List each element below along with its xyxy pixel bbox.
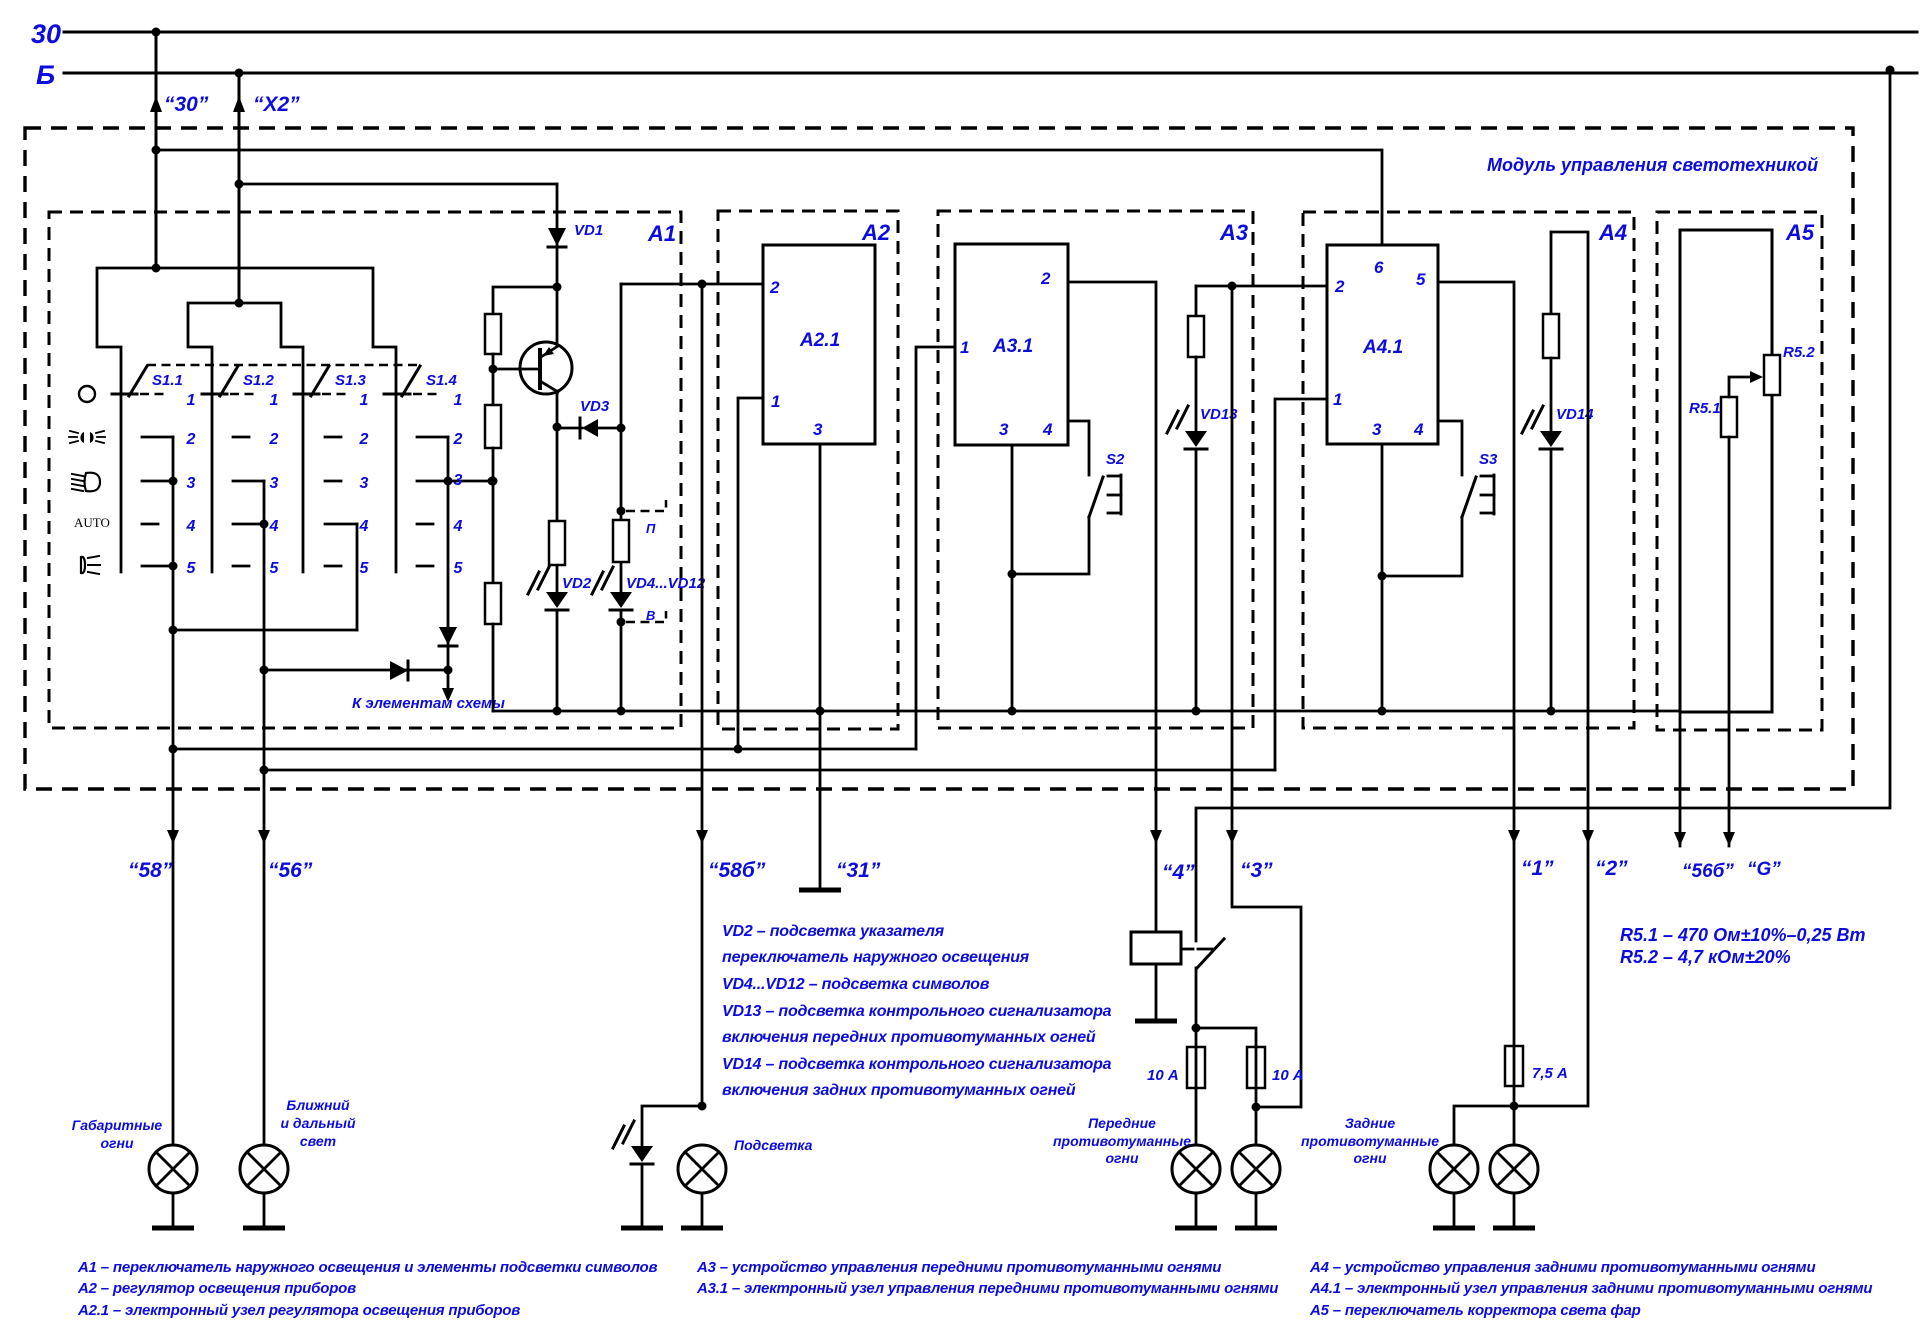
svg-text:А3.1 – электронный узел управл: А3.1 – электронный узел управления перед… xyxy=(696,1280,1278,1297)
LED VD14 xyxy=(1522,358,1562,711)
svg-text:A3.1: A3.1 xyxy=(992,336,1033,357)
transistor VT xyxy=(520,287,572,432)
svg-text:Модуль управления светотехнико: Модуль управления светотехникой xyxy=(1487,155,1818,175)
block A3.1 xyxy=(955,244,1068,445)
wire feed to A4.1 pin6 xyxy=(156,150,1382,245)
svg-text:включения задних противотуманн: включения задних противотуманных огней xyxy=(722,1082,1076,1099)
svg-text:VD14 – подсветка контрольного: VD14 – подсветка контрольного сигнализат… xyxy=(722,1056,1112,1073)
node junction 30/drop xyxy=(152,28,161,37)
svg-text:6: 6 xyxy=(1374,258,1384,277)
switch S1.4 xyxy=(384,366,463,572)
wire divider to bus xyxy=(492,624,495,711)
switch S1.2 xyxy=(202,366,279,572)
svg-text:П: П xyxy=(646,521,656,536)
wire output 58б xyxy=(696,284,708,1111)
svg-text:R5.2: R5.2 xyxy=(1783,344,1815,361)
resistor divider mid xyxy=(485,405,501,448)
svg-text:S1.4: S1.4 xyxy=(426,372,458,389)
switch S1.1 xyxy=(112,366,196,572)
svg-text:R5.1: R5.1 xyxy=(1689,400,1721,417)
lamp rear fog 2 xyxy=(1490,1145,1538,1228)
svg-text:“1”: “1” xyxy=(1521,857,1554,880)
wire Б right feed xyxy=(1196,66,1895,942)
wire VD13 chain feed xyxy=(1195,286,1198,316)
svg-text:4: 4 xyxy=(453,518,463,535)
wire A2.1 pin1 xyxy=(738,398,763,749)
wire A2.1 pin2 xyxy=(621,280,763,289)
svg-text:“30”: “30” xyxy=(164,93,209,116)
svg-text:Б: Б xyxy=(36,60,55,90)
node В bracket xyxy=(626,608,666,623)
svg-text:огни: огни xyxy=(1353,1150,1386,1166)
svg-text:2: 2 xyxy=(1040,269,1051,288)
svg-text:10 А: 10 А xyxy=(1147,1067,1179,1084)
node caption габаритные огни xyxy=(72,1117,163,1151)
icon fog light xyxy=(81,556,100,574)
svg-text:5: 5 xyxy=(360,560,370,577)
lamp front fog 2 xyxy=(1232,1145,1280,1228)
fuse F1 10A xyxy=(1147,1028,1205,1145)
svg-text:A1: A1 xyxy=(647,221,676,246)
switch S1.4 contacts xyxy=(417,431,497,577)
svg-text:10 А: 10 А xyxy=(1272,1067,1304,1084)
svg-text:1: 1 xyxy=(454,392,463,409)
svg-text:VD2 – подсветка указателя: VD2 – подсветка указателя xyxy=(722,923,945,940)
svg-text:3: 3 xyxy=(813,420,823,439)
wire branch y670 with diode xyxy=(264,661,453,680)
node VD annotation block xyxy=(722,923,1112,1099)
svg-text:3: 3 xyxy=(270,475,279,492)
wire staircase from Х2 xyxy=(188,303,303,394)
svg-text:4: 4 xyxy=(269,518,279,535)
node legend column 2 xyxy=(696,1259,1278,1297)
node П bracket xyxy=(626,500,666,536)
resistor R5.1 xyxy=(1689,397,1737,437)
wire divider mid xyxy=(489,354,540,405)
svg-text:A3: A3 xyxy=(1219,220,1248,245)
wire S1.1 output to 58 xyxy=(167,437,179,1145)
svg-text:“3”: “3” xyxy=(1240,859,1273,882)
svg-text:“2”: “2” xyxy=(1595,857,1628,880)
wire rear lamps link xyxy=(1454,1046,1519,1145)
icon off position xyxy=(79,386,95,402)
svg-text:VD13 – подсветка контрольного: VD13 – подсветка контрольного сигнализат… xyxy=(722,1003,1112,1020)
wire A3.1 pin4 to S2 xyxy=(1068,421,1089,475)
svg-text:3: 3 xyxy=(1372,420,1382,439)
wire A3.1 pin3 xyxy=(1008,445,1017,711)
svg-text:“4”: “4” xyxy=(1162,861,1195,884)
block A2.1 xyxy=(763,245,875,444)
lamp Ближний и дальний свет xyxy=(240,1145,288,1228)
svg-text:А3 – устройство управления пер: А3 – устройство управления передними про… xyxy=(696,1259,1221,1276)
switch S1.2 contacts xyxy=(233,431,280,577)
svg-text:VD4...VD12 – подсветка символо: VD4...VD12 – подсветка символов xyxy=(722,976,990,993)
lamp rear fog 1 xyxy=(1430,1145,1478,1228)
switch S1.3 contacts xyxy=(325,431,370,577)
wire output G xyxy=(1723,437,1735,846)
svg-text:4: 4 xyxy=(1042,420,1053,439)
svg-text:“Х2”: “Х2” xyxy=(253,93,300,116)
svg-text:2: 2 xyxy=(186,431,196,448)
svg-text:VD1: VD1 xyxy=(574,222,603,239)
svg-text:Ближний: Ближний xyxy=(286,1097,350,1113)
resistor VD2 chain xyxy=(549,521,565,565)
svg-text:S1.2: S1.2 xyxy=(243,372,275,389)
svg-text:противотуманные: противотуманные xyxy=(1053,1133,1191,1149)
svg-text:VD3: VD3 xyxy=(580,398,610,415)
wire VD1 node to divider xyxy=(493,287,557,314)
wire R5.1 wiper arrow xyxy=(1729,371,1763,397)
wire S2 branch xyxy=(1012,517,1089,574)
svg-text:Задние: Задние xyxy=(1345,1115,1395,1131)
wire VD14 chain feed xyxy=(1550,232,1553,314)
svg-text:3: 3 xyxy=(360,475,369,492)
svg-text:5: 5 xyxy=(1416,270,1426,289)
svg-text:“58”: “58” xyxy=(128,859,173,882)
wire A3.1 pin1 xyxy=(916,347,955,749)
wire A4.1 pin5 to output 1 xyxy=(1438,282,1520,1046)
switch coupling dashed line xyxy=(147,364,422,367)
wire bus 58 sense y749 xyxy=(173,745,916,754)
svg-text:A4: A4 xyxy=(1598,220,1627,245)
svg-text:VD4...VD12: VD4...VD12 xyxy=(626,575,706,592)
svg-text:4: 4 xyxy=(1413,420,1424,439)
wire bus 56 sense y770 xyxy=(264,769,1275,772)
wire bus 30 xyxy=(64,31,1917,34)
block A5 body xyxy=(1680,230,1772,712)
node R5 values xyxy=(1620,925,1866,967)
button S3 xyxy=(1462,451,1498,517)
resistor divider top xyxy=(485,314,501,354)
LED VD13 xyxy=(1167,357,1207,711)
diode VD1 xyxy=(548,184,566,292)
svg-text:огни: огни xyxy=(100,1135,133,1151)
svg-text:S1.1: S1.1 xyxy=(152,372,183,389)
resistor VD13 chain xyxy=(1188,316,1204,357)
lamp Подсветка xyxy=(678,1145,726,1228)
switch S1.3 xyxy=(294,366,369,572)
block A3 box xyxy=(938,211,1253,728)
svg-text:“56б”: “56б” xyxy=(1682,861,1734,882)
svg-text:5: 5 xyxy=(270,560,280,577)
relay K contact xyxy=(1192,939,1225,1033)
svg-text:Передние: Передние xyxy=(1088,1115,1156,1131)
svg-text:2: 2 xyxy=(453,431,463,448)
block A2 box xyxy=(718,211,898,729)
wire VD2 chain xyxy=(556,427,559,711)
wire output 3 xyxy=(1226,286,1301,1107)
resistor VD14 chain xyxy=(1543,314,1559,358)
svg-text:S3: S3 xyxy=(1479,451,1498,468)
wire drop 30 xyxy=(150,32,162,273)
wire A4.1 pin3 xyxy=(1378,444,1387,711)
wire feed X2 to VD1 xyxy=(239,183,557,186)
resistor VD4 chain xyxy=(613,520,629,562)
svg-text:А4 – устройство управления зад: А4 – устройство управления задними проти… xyxy=(1309,1259,1815,1276)
svg-text:VD2: VD2 xyxy=(562,575,592,592)
svg-text:переключатель наружного освеще: переключатель наружного освещения xyxy=(722,949,1030,966)
svg-text:противотуманные: противотуманные xyxy=(1301,1133,1439,1149)
wire A3.1 pin2 to output 4 xyxy=(1068,282,1162,932)
block A5 box xyxy=(1657,212,1822,730)
svg-text:3: 3 xyxy=(999,420,1009,439)
wire A4.1 pin1 xyxy=(1275,399,1327,770)
svg-text:В: В xyxy=(646,608,655,623)
fuse F3 7.5A xyxy=(1505,1046,1568,1086)
switch S1.1 contacts xyxy=(142,431,197,577)
svg-text:S2: S2 xyxy=(1106,451,1125,468)
svg-text:A5: A5 xyxy=(1785,220,1815,245)
resistor divider bottom xyxy=(485,583,501,624)
svg-text:и дальный: и дальный xyxy=(280,1115,355,1131)
node caption задние противотуманные огни xyxy=(1301,1115,1439,1166)
svg-text:2: 2 xyxy=(269,431,279,448)
wire S1.3 contact4 link xyxy=(356,524,359,630)
svg-text:7,5 А: 7,5 А xyxy=(1532,1065,1568,1082)
svg-text:3: 3 xyxy=(454,472,463,489)
node junction Б/drop xyxy=(235,69,244,78)
svg-text:5: 5 xyxy=(187,560,197,577)
LED VD4...VD12 xyxy=(592,567,632,610)
lamp front fog 1 xyxy=(1172,1145,1220,1228)
svg-text:Подсветка: Подсветка xyxy=(734,1137,813,1153)
ground 31 xyxy=(799,888,841,893)
wire staircase from 30 xyxy=(97,268,396,394)
wire output 56б xyxy=(1674,712,1686,846)
wire VD4 chain xyxy=(617,284,626,711)
diode in S1.4 branch xyxy=(439,437,457,670)
svg-text:“56”: “56” xyxy=(268,859,313,882)
icon parking lights xyxy=(69,431,105,443)
svg-text:1: 1 xyxy=(360,392,369,409)
svg-text:1: 1 xyxy=(270,392,279,409)
relay K coil xyxy=(1131,932,1193,1021)
node caption передние противотуманные огни xyxy=(1053,1115,1191,1166)
svg-text:А2 – регулятор освещения прибо: А2 – регулятор освещения приборов xyxy=(77,1280,356,1297)
svg-text:2: 2 xyxy=(359,431,369,448)
svg-text:4: 4 xyxy=(186,518,196,535)
wire arrow to scheme elements xyxy=(442,670,454,702)
svg-text:3: 3 xyxy=(187,475,196,492)
wire divider to S1.4 node xyxy=(489,448,498,583)
button S2 xyxy=(1089,451,1125,517)
block A4 box xyxy=(1303,212,1634,728)
wire contact to fuse2 xyxy=(1196,1028,1256,1047)
svg-text:А5 – переключатель корректора: А5 – переключатель корректора света фар xyxy=(1309,1302,1641,1319)
svg-text:включения передних противотума: включения передних противотуманных огней xyxy=(722,1029,1096,1046)
wire output 2 xyxy=(1514,232,1594,1106)
wire link row outputs y630 xyxy=(173,629,357,632)
svg-text:А4.1 – электронный узел управл: А4.1 – электронный узел управления задни… xyxy=(1309,1280,1872,1297)
svg-text:1: 1 xyxy=(771,392,780,411)
svg-text:К элементам схемы: К элементам схемы xyxy=(352,695,505,712)
svg-text:1: 1 xyxy=(187,392,196,409)
wire S3 branch xyxy=(1382,517,1462,576)
svg-text:свет: свет xyxy=(300,1133,336,1149)
svg-text:A2: A2 xyxy=(861,220,891,245)
wire VD13 node to A4.1 pin2 xyxy=(1196,282,1327,291)
svg-text:А2.1 – электронный узел регуля: А2.1 – электронный узел регулятора освещ… xyxy=(77,1302,520,1319)
svg-text:огни: огни xyxy=(1105,1150,1138,1166)
LED podsvetka xyxy=(613,1121,663,1228)
svg-text:Габаритные: Габаритные xyxy=(72,1117,163,1133)
fuse F2 10A xyxy=(1247,1047,1304,1145)
wire podsvetka LED branch xyxy=(642,1106,702,1146)
node caption ближний и дальний свет xyxy=(280,1097,355,1149)
svg-text:R5.1 – 470 Ом±10%–0,25 Вт: R5.1 – 470 Ом±10%–0,25 Вт xyxy=(1620,925,1866,945)
svg-text:1: 1 xyxy=(960,338,969,357)
block A4.1 xyxy=(1327,245,1438,444)
resistor R5.2 xyxy=(1764,344,1815,395)
wire A4.1 pin4 to S3 xyxy=(1438,421,1462,475)
svg-text:2: 2 xyxy=(1334,277,1345,296)
svg-text:1: 1 xyxy=(1333,390,1342,409)
wire bus dimmer return y711 xyxy=(493,707,1680,716)
LED VD2 xyxy=(528,567,568,610)
svg-text:“58б”: “58б” xyxy=(708,859,766,882)
svg-text:2: 2 xyxy=(769,278,780,297)
wire S1.2 output to 56 xyxy=(258,481,270,1145)
svg-text:A2.1: A2.1 xyxy=(799,330,840,351)
wire drop Х2 xyxy=(233,73,245,308)
svg-text:4: 4 xyxy=(359,518,369,535)
module box (Модуль управления светотехникой) xyxy=(25,128,1853,789)
icon low beam xyxy=(72,473,100,492)
svg-text:S1.3: S1.3 xyxy=(335,372,367,389)
wire A2.1 pin3 to ground 31 xyxy=(819,444,822,890)
svg-text:30: 30 xyxy=(31,19,61,49)
diode VD3 xyxy=(557,418,626,438)
block A1 box xyxy=(49,212,681,728)
svg-text:R5.2 – 4,7 кОм±20%: R5.2 – 4,7 кОм±20% xyxy=(1620,947,1791,967)
node legend column 3 xyxy=(1309,1259,1872,1319)
svg-text:A4.1: A4.1 xyxy=(1362,337,1403,358)
node legend column 1 xyxy=(77,1259,658,1319)
wire bus Б xyxy=(64,72,1917,75)
svg-text:“31”: “31” xyxy=(836,859,881,882)
svg-text:AUTO: AUTO xyxy=(74,515,110,530)
svg-text:“G”: “G” xyxy=(1747,859,1781,880)
svg-text:А1 – переключатель наружного о: А1 – переключатель наружного освещения и… xyxy=(77,1259,658,1276)
lamp Габаритные огни xyxy=(149,1145,197,1228)
svg-text:5: 5 xyxy=(454,560,464,577)
